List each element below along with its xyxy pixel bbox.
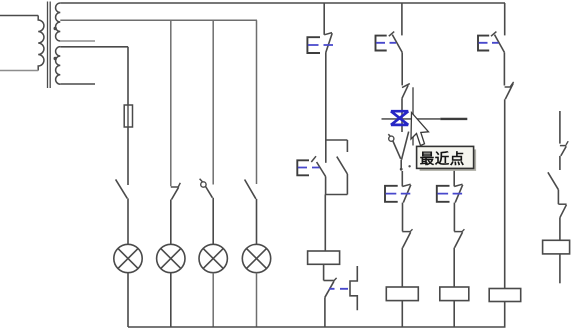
crosshair horizontal center (under cursor) — [414, 118, 440, 120]
wire lamp3 to rail — [212, 273, 214, 327]
coil KM4 — [489, 289, 521, 302]
contact K6 blade — [560, 205, 567, 218]
crosshair horizontal right arm — [440, 118, 467, 120]
wire lamp1 to rail — [127, 273, 129, 327]
pushbutton SB3 actuator E — [376, 36, 387, 51]
wire K3 to coil KM3 — [453, 248, 455, 287]
wire SB5 to contact K3 — [453, 203, 455, 232]
pushbutton SB3 link — [376, 42, 396, 44]
wire coil KM5 lower — [559, 254, 561, 283]
snap marker hourglass — [391, 111, 408, 125]
wire secondary2 top lead — [60, 46, 128, 48]
pushbutton SB5 link — [437, 193, 462, 195]
pushbutton SB2 actuator E — [297, 160, 309, 175]
transformer polarity dot upper — [54, 27, 57, 30]
contact K5 tick — [566, 141, 568, 145]
wire SB4 to contact K2 — [402, 203, 404, 232]
wire secondary1 bottom stub — [60, 40, 95, 42]
contact K2 nose — [402, 231, 411, 233]
pushbutton SB3 tick — [389, 32, 394, 37]
wire jog — [324, 280, 334, 282]
wire right stub lower — [346, 174, 348, 195]
switch roller under marker — [389, 136, 394, 141]
wire fuse to switch — [127, 127, 129, 185]
wire left contact upper — [325, 140, 327, 163]
switch blade right under marker — [402, 132, 409, 160]
cursor arrow — [411, 113, 429, 146]
fuse FU1 — [124, 105, 132, 127]
pushbutton SB5 actuator E — [437, 186, 450, 202]
crosshair horizontal left arm — [382, 118, 415, 120]
lamp HL2 — [157, 244, 185, 272]
contact K2 tick — [411, 229, 413, 231]
contact K1 nose — [402, 84, 410, 88]
lamp HL1 — [114, 244, 142, 272]
wire K5 lower — [559, 156, 561, 170]
pushbutton SB6 tick — [491, 32, 496, 37]
switch S3 tick — [200, 179, 203, 182]
wire branchA to rail — [324, 297, 326, 327]
transformer T1 core — [48, 2, 51, 89]
contact K2 blade — [403, 232, 411, 247]
wire K4 to coil KM4 — [504, 99, 506, 288]
crosshair vertical — [412, 87, 414, 145]
transformer T1 primary top lead — [0, 15, 38, 17]
contact KM1b staircase — [350, 266, 357, 310]
pushbutton SB6 link — [479, 42, 499, 44]
wire to coil KM1 — [324, 195, 326, 252]
contact SB2a tick — [311, 156, 316, 162]
junction dot — [400, 168, 403, 171]
pushbutton SB4 link — [386, 193, 411, 195]
switch S4 blade — [245, 180, 256, 199]
wire coil KM3 to rail — [453, 301, 455, 327]
svg-text:最近点: 最近点 — [420, 150, 465, 168]
contact K3 tick — [462, 229, 464, 231]
switch S2 blade — [172, 187, 179, 199]
wire SB6 to contact K4 — [503, 52, 505, 85]
contact KM1a tick — [334, 278, 337, 281]
tooltip box — [417, 146, 474, 168]
pushbutton SB6 actuator E — [478, 36, 489, 51]
wire tap rail — [60, 19, 257, 21]
pushbutton SB1 blade — [326, 33, 332, 52]
lamp HL4 — [242, 244, 270, 272]
pushbutton SB1 nose — [324, 33, 332, 35]
wire SB1 to parallel section — [325, 53, 327, 141]
contact K4 tick — [510, 82, 513, 87]
wire lamp2 to rail — [170, 273, 172, 327]
wire parallel top — [326, 139, 348, 141]
contact SB2a blade — [317, 162, 326, 177]
wire branchB drop — [401, 3, 403, 35]
wire K2 to coil KM2 — [401, 248, 403, 287]
coil KM2 — [386, 287, 418, 301]
wire left contact lower — [325, 177, 327, 195]
wire top rail — [60, 2, 505, 4]
pushbutton SB4 blade — [403, 185, 411, 203]
wire coil KM4 to rail — [504, 302, 506, 328]
wire branchC upper — [453, 146, 455, 186]
switch S3 blade — [206, 187, 213, 198]
tooltip shadow — [420, 149, 477, 171]
wire parallel bottom — [325, 194, 347, 196]
wire branch1 upper — [127, 47, 129, 105]
wire bottom rail — [128, 326, 506, 328]
pushbutton SB4 nose — [402, 184, 410, 186]
transformer T1 secondary winding 2 — [56, 47, 61, 85]
wire branch2 upper — [170, 20, 172, 186]
lamp HL3 — [199, 244, 227, 272]
coil KM1 — [308, 251, 340, 264]
switch S5 blade — [548, 172, 559, 189]
transformer T1 secondary winding 1 — [56, 3, 61, 41]
contact K3 nose — [454, 231, 463, 233]
switch tick under marker — [388, 134, 390, 136]
wire branchA drop — [323, 3, 325, 35]
switch S2 tick — [178, 183, 180, 187]
switch S3 roller — [201, 182, 206, 187]
wire switch to lamp 1 — [127, 198, 129, 244]
wire switch3 to lamp3 — [212, 198, 214, 245]
contact K4 nose — [505, 86, 511, 88]
contact K5 blade — [561, 146, 566, 156]
wire contact K1 to snap point — [401, 98, 403, 132]
wire secondary2 bottom stub — [60, 83, 95, 85]
pushbutton SB1 actuator E — [307, 37, 320, 53]
pushbutton SB1 link — [308, 44, 333, 46]
wire switch4 to lamp4 — [256, 199, 258, 244]
pushbutton SB2 link — [298, 167, 320, 169]
contact K5 nose — [560, 145, 567, 147]
contact K6 nose — [558, 203, 566, 205]
pushbutton SB4 actuator E — [385, 186, 398, 202]
contact K1 blade — [402, 85, 408, 98]
wire coil KM1 lower — [323, 264, 325, 280]
switch blade left under marker — [393, 141, 401, 159]
wire lamp4 to rail — [256, 273, 258, 327]
contact SB2b blade — [337, 157, 348, 174]
contact K3 blade — [455, 232, 463, 247]
contact K4 blade — [505, 83, 513, 99]
stray blip dot — [408, 165, 410, 167]
wire switch2 to lamp2 — [170, 200, 172, 245]
pushbutton SB5 blade — [455, 185, 463, 203]
transformer polarity dot lower — [54, 57, 57, 60]
wire coil KM2 to rail — [401, 301, 403, 327]
pushbutton SB3 blade — [392, 35, 402, 53]
wire branch3 upper — [212, 20, 214, 184]
transformer T1 primary winding — [38, 16, 44, 71]
wire K6 to coil KM5 — [559, 218, 561, 241]
contact KM1a blade — [325, 281, 334, 297]
coil KM5 — [543, 240, 570, 254]
wire junction below marker — [400, 160, 402, 168]
wire branch4 upper — [256, 20, 258, 184]
pushbutton SB6 blade — [495, 35, 505, 53]
pushbutton SB5 nose — [454, 184, 462, 186]
wire S5 lower — [557, 190, 559, 205]
wire column E upper — [559, 111, 561, 144]
switch S2 nose — [171, 186, 179, 188]
wire to pushbutton SB4 — [401, 171, 403, 186]
coil KM3 — [440, 287, 469, 301]
wire branchD drop — [504, 3, 506, 35]
switch S1 blade — [116, 179, 128, 198]
transformer T1 primary bottom lead — [0, 70, 38, 72]
contact link dashes — [329, 288, 348, 290]
wire right stub upper — [346, 140, 348, 152]
wire SB3 to contact — [401, 52, 403, 85]
wire through fuse — [127, 105, 129, 127]
